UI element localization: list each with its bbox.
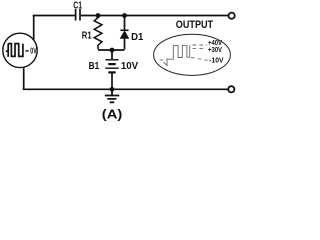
battery B1 plate short bbox=[108, 63, 115, 65]
output waveform start dash bbox=[160, 59, 163, 61]
wire source top to rail bbox=[33, 16, 35, 41]
battery B1 plate short bottom bbox=[108, 71, 115, 73]
svg-text:0V: 0V bbox=[30, 47, 37, 56]
resistor R1 zigzag bbox=[94, 16, 102, 50]
svg-text:10V: 10V bbox=[121, 60, 138, 72]
wire top rail left segment bbox=[33, 15, 75, 17]
battery B1 plate long top bbox=[105, 59, 118, 61]
svg-text:D1: D1 bbox=[131, 31, 143, 43]
svg-text:C1: C1 bbox=[73, 1, 82, 12]
wire R1/D1 bottom horizontal bbox=[98, 49, 125, 51]
wire top rail right segment bbox=[81, 15, 228, 17]
output balloon ellipse bbox=[154, 34, 231, 75]
output dashed level +30V bbox=[193, 47, 207, 49]
diode D1 wire from rail bbox=[124, 16, 126, 31]
wire source bottom to rail bbox=[23, 67, 25, 89]
wire bottom rail bbox=[23, 88, 228, 90]
diode D1 triangle bbox=[120, 31, 129, 38]
signal source 0V label bbox=[25, 50, 29, 52]
output terminal bottom bbox=[228, 86, 234, 92]
node D junction dot (ground) bbox=[110, 87, 115, 92]
ground symbol bbox=[105, 89, 120, 102]
node B junction dot (D1 top) bbox=[122, 13, 127, 18]
diode D1 wire to bottom node bbox=[124, 39, 126, 50]
svg-text:B1: B1 bbox=[89, 60, 100, 72]
node A junction dot (R1 top) bbox=[96, 13, 101, 18]
capacitor C1 plates bbox=[76, 9, 80, 21]
diode D1 cathode bar bbox=[120, 29, 128, 31]
output dashed level +40V bbox=[193, 44, 208, 46]
output terminal top bbox=[229, 13, 235, 19]
svg-text:-10V: -10V bbox=[209, 57, 224, 64]
svg-text:(A): (A) bbox=[102, 108, 123, 122]
battery B1 plate long bottom bbox=[105, 67, 118, 69]
svg-text:R1: R1 bbox=[82, 29, 92, 41]
signal source SRC circle bbox=[3, 33, 37, 67]
node C junction dot (battery top) bbox=[110, 48, 115, 53]
svg-text:OUTPUT: OUTPUT bbox=[176, 19, 214, 31]
svg-text:+40V: +40V bbox=[208, 40, 222, 47]
wire battery to bottom rail bbox=[111, 73, 113, 89]
wire node C to battery bbox=[111, 50, 113, 59]
svg-text:+30V: +30V bbox=[208, 47, 222, 54]
output dashed level -10V bbox=[191, 58, 208, 61]
output waveform initial dip bbox=[164, 59, 168, 67]
output waveform pulses bbox=[167, 45, 190, 59]
signal source square-wave glyph bbox=[6, 44, 23, 57]
